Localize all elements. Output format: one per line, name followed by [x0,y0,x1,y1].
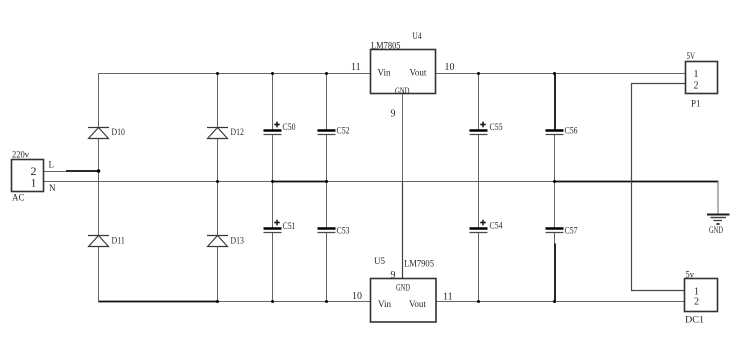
capacitor C55 [470,122,488,135]
svg-text:C57: C57 [565,226,578,236]
svg-text:GND: GND [709,225,723,235]
capacitor C53 [318,229,336,233]
wire bottom rail to U5 Vin [219,301,371,303]
capacitor C52 [318,131,336,135]
svg-text:DC1: DC1 [685,315,704,325]
wire right bridge rail [217,74,219,302]
capacitor C56 [546,131,564,135]
wire top positive rail [98,73,371,75]
ground symbol [707,215,730,225]
svg-text:AC: AC [12,193,25,203]
wire mid ground rail center [327,181,555,183]
diode D10 [88,128,109,139]
svg-text:C54: C54 [490,221,503,231]
wire C55/C54 column [478,74,480,302]
op-amp U4 regulator LM7805 box [371,50,436,94]
svg-text:GND: GND [395,86,410,96]
wire U5 Vout to DC1 pin 2 [436,301,685,303]
svg-text:1: 1 [31,176,37,190]
svg-text:Vin: Vin [378,299,391,309]
capacitor C51 [264,220,282,233]
wire drop to ground symbol [717,181,719,215]
wire AC pin N / mid ground rail left [44,181,273,183]
diode D13 [207,236,228,247]
junction dot AC L at left rail [97,169,101,173]
wire AC pin L to bridge (thick part) [66,170,99,172]
svg-text:D10: D10 [112,127,126,137]
svg-text:Vin: Vin [378,68,391,78]
wire C56/C57 column [554,74,557,302]
connector DC1 box [685,279,718,312]
svg-text:U5: U5 [374,256,385,266]
svg-text:220v: 220v [12,150,29,160]
svg-text:P1: P1 [691,99,701,109]
svg-text:9: 9 [391,109,396,120]
svg-text:Vout: Vout [409,299,426,309]
wire P1 pin 2 to DC1 pin 1 [632,84,686,291]
svg-text:L: L [49,160,55,170]
wire U4 GND pin 9 to U5 GND pin 9 [402,94,404,182]
svg-text:5V: 5V [687,51,696,61]
connector P1 box [686,62,718,94]
svg-text:D13: D13 [231,236,245,246]
wire C52/C53 column [326,74,328,302]
svg-text:C51: C51 [283,221,296,231]
junction dots top rail [216,72,556,75]
wire C50/C51 column [272,74,274,302]
svg-text:C50: C50 [283,122,296,132]
diode D12 [207,128,228,139]
svg-text:C56: C56 [565,126,578,136]
op-amp U5 regulator LM7905 box [371,279,437,323]
svg-text:N: N [49,183,56,193]
wire AC pin L to bridge (thin part) [44,171,67,173]
svg-text:LM7905: LM7905 [404,259,434,269]
junction dots bottom rail [216,300,556,303]
wire U4 Vout to P1 pin 1 [436,73,686,75]
svg-text:U4: U4 [413,31,422,41]
connector AC box [12,160,44,192]
svg-text:C55: C55 [490,122,503,132]
svg-text:2: 2 [694,297,699,308]
capacitor C54 [470,220,488,233]
svg-text:D11: D11 [112,236,125,246]
svg-text:11: 11 [351,62,361,73]
svg-text:C52: C52 [337,126,350,136]
wire left bridge rail [98,74,100,302]
svg-text:1: 1 [694,69,699,80]
svg-text:9: 9 [391,270,396,281]
svg-text:10: 10 [445,62,455,73]
svg-text:10: 10 [352,291,362,302]
wire bottom rail thick left [99,301,219,303]
svg-text:D12: D12 [231,127,244,137]
svg-text:GND: GND [396,283,410,293]
svg-text:Vout: Vout [410,68,427,78]
wire mid ground rail thick segment [273,181,327,183]
diode D11 [88,236,109,247]
svg-text:LM7805: LM7805 [371,41,401,51]
svg-text:C53: C53 [337,226,350,236]
capacitor C57 [546,229,564,233]
svg-text:5v: 5v [686,270,695,280]
svg-text:11: 11 [443,292,453,303]
svg-text:2: 2 [694,81,699,92]
capacitor C50 [264,122,282,135]
wire mid ground rail right thick [555,181,719,183]
junction dots mid ground rail [216,180,556,183]
